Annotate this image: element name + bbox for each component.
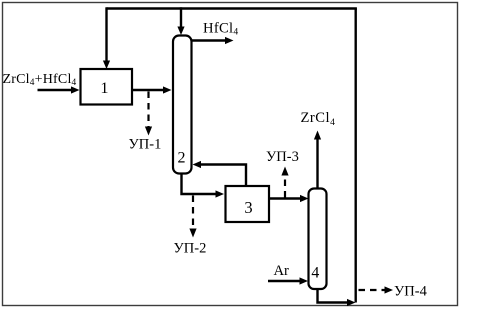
dashed purge arrow UP-1 [145,92,152,136]
wire: block 3 recycle to column 2 [193,161,247,186]
wire: HfCl4 overhead arrow [192,37,234,44]
svg-text:УП-4: УП-4 [394,284,428,300]
wire: block 1 to column 2 [133,86,172,93]
svg-text:Ar: Ar [274,263,290,279]
wire: Ar feed arrow into column 4 [268,277,308,284]
recycle top wire [107,7,357,9]
block 3 [226,186,270,222]
wire: feed arrow into block 1 [38,86,80,93]
wire: recycle drop into column 2 [177,7,184,35]
wire: block 3 to column 4 [269,195,309,202]
svg-text:3: 3 [244,198,252,217]
dashed purge arrow UP-4 [359,286,394,293]
recycle riser wire (col4 bottom to top) [355,9,357,303]
wire: ZrCl4 overhead arrow [314,131,321,189]
svg-text:1: 1 [100,78,108,97]
block 1 [81,69,133,105]
column 2 [173,36,192,174]
wire: column 2 bottoms to block 3 [182,173,225,198]
wire: column 4 bottoms to recycle riser [318,288,356,306]
svg-text:4: 4 [311,265,319,282]
svg-text:ZrCl4+HfCl4: ZrCl4+HfCl4 [3,72,77,88]
svg-text:HfCl4: HfCl4 [203,21,239,38]
dashed purge arrow UP-3 [281,167,288,198]
svg-text:УП-3: УП-3 [266,149,299,165]
svg-text:УП-1: УП-1 [129,137,162,153]
wire: recycle drop into block 1 [103,7,110,69]
dashed purge arrow UP-2 [189,196,196,238]
column 4 [309,189,327,290]
svg-text:2: 2 [178,150,186,167]
svg-text:УП-2: УП-2 [174,241,207,257]
